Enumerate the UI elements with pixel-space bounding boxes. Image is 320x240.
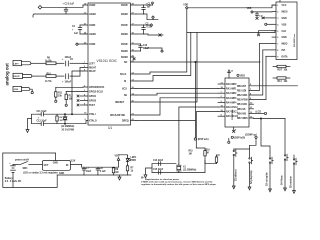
- svg-text:VCC: VCC: [282, 5, 287, 7]
- svg-text:C12 10uF: C12 10uF: [37, 120, 48, 122]
- gnd stub GPIO0: [77, 100, 79, 102]
- J1 pin 9 DATA: [272, 55, 288, 58]
- svg-text:XCS: XCS: [122, 89, 127, 91]
- svg-text:VS1011 SOIC: VS1011 SOIC: [97, 59, 118, 63]
- svg-text:R14: R14: [278, 80, 283, 83]
- svg-text:analog out: analog out: [5, 63, 10, 86]
- U1 right pin DVDD (28): [121, 3, 136, 7]
- svg-text:GND: GND: [14, 89, 19, 91]
- svg-text:RA4-WR4: RA4-WR4: [226, 101, 237, 104]
- node (LCD) circle: [256, 112, 267, 115]
- U1 right pin XDCS/BSYNC (23): [110, 113, 136, 117]
- U2 right pin RB7-WRS (13): [237, 116, 261, 120]
- U2 left pin RA4-WR4 (3): [218, 101, 237, 105]
- wire XRESET riser: [136, 33, 197, 103]
- svg-text:1M: 1M: [189, 154, 192, 156]
- svg-text:RST: RST: [278, 70, 283, 72]
- svg-text:RIGHT: RIGHT: [13, 76, 20, 78]
- svg-text:X1: X1: [183, 166, 187, 168]
- svg-text:RB0-INT: RB0-INT: [237, 86, 247, 88]
- svg-text:OUT: OUT: [44, 165, 49, 167]
- svg-text:Magic/tweaks on ultra-low powe: Magic/tweaks on ultra-low power: [145, 178, 179, 181]
- svg-text:GPIO2-SCLK: GPIO2-SCLK: [89, 92, 103, 94]
- svg-text:CLK: CLK: [282, 31, 287, 33]
- U1 right pin DGND (19): [121, 32, 136, 36]
- svg-text:5: 5: [277, 31, 279, 33]
- svg-text:C11 10uF: C11 10uF: [37, 111, 48, 113]
- svg-text:GPIO0: GPIO0: [89, 101, 97, 103]
- U1 left pin LEFT (7): [83, 62, 95, 66]
- svg-text:U1: U1: [108, 126, 112, 130]
- node VDD diamond mid stub: [144, 24, 153, 27]
- svg-text:R15: R15: [189, 151, 194, 153]
- capacitor C11 10uF: [37, 111, 48, 120]
- U1 right pin DGND (20): [121, 55, 135, 59]
- J1 pin 4 VSB: [272, 23, 287, 26]
- connector LEFT: [13, 61, 31, 66]
- wire gnd stub y35: [144, 34, 164, 36]
- svg-text:C5: C5: [70, 59, 74, 61]
- svg-text:SCLK: SCLK: [120, 74, 127, 76]
- U2 left pin RA6-OSC2 (15): [218, 105, 238, 109]
- svg-text:100uF: 100uF: [65, 82, 72, 84]
- svg-text:LED1: LED1: [131, 157, 138, 159]
- capacitor C3 top-left: [63, 3, 75, 14]
- wire J1 pin5 clk with gnd hook: [257, 31, 272, 36]
- capacitor C2 decoupling right: [136, 24, 153, 34]
- U1 right pin SI (13): [124, 79, 136, 83]
- svg-text:R9: R9: [47, 58, 51, 60]
- svg-text:R12: R12: [69, 95, 74, 97]
- svg-text:VDD: VDD: [115, 156, 120, 158]
- svg-text:AVDD: AVDD: [89, 43, 96, 46]
- svg-text:(LCD: (LCD: [256, 112, 262, 114]
- wire AGND return top-left: [33, 14, 83, 17]
- wire GPIO3 pull: [56, 86, 83, 88]
- svg-text:C8: C8: [100, 168, 104, 170]
- note text lines: [141, 178, 216, 186]
- svg-text:C15 22pF: C15 22pF: [153, 169, 164, 171]
- U1 right pin XRESET (26): [115, 100, 136, 104]
- button S5 branch: [290, 155, 297, 193]
- node (prog) circle top: [237, 74, 245, 77]
- U1 right pin SE (14): [124, 92, 136, 97]
- capacitor C4 mid-left: [72, 25, 83, 35]
- wire J1 pin4 open circle: [265, 23, 272, 25]
- resistor R14 pullup: [273, 77, 290, 83]
- svg-text:RB7-WRS: RB7-WRS: [237, 118, 248, 120]
- svg-text:+: +: [9, 163, 11, 165]
- IC U2 PIC body: [225, 78, 249, 127]
- U1 right pin SO (22) with long wire to right bus: [124, 60, 260, 64]
- U2 left pin RA7-OSC1 (16): [218, 110, 238, 114]
- svg-text:S4 ff/rew: S4 ff/rew: [280, 175, 283, 185]
- button S2 branch: [248, 157, 253, 190]
- U1 right pin DGND (27): [121, 12, 136, 16]
- svg-text:SO: SO: [124, 62, 128, 64]
- svg-text:IN: IN: [66, 165, 69, 167]
- connector RIGHT: [13, 73, 32, 78]
- svg-text:SW1: SW1: [23, 168, 29, 170]
- capacitor C5 100uF left channel: [62, 57, 74, 66]
- svg-text:ISO-MMC bus: ISO-MMC bus: [294, 33, 296, 47]
- button S3 branch: [266, 152, 273, 192]
- label analog out (rotated): [5, 63, 10, 86]
- ground arrow RCAP block: [26, 119, 32, 133]
- U2 right pin RB1-SDI (7): [237, 44, 260, 93]
- svg-text:RB3-PGM: RB3-PGM: [237, 100, 248, 102]
- svg-text:R6: R6: [60, 117, 63, 119]
- svg-text:S1 alt/next: S1 alt/next: [234, 169, 237, 181]
- svg-text:RA1-WR1: RA1-WR1: [226, 88, 237, 91]
- node (DSP b00) circle: [231, 136, 245, 139]
- U1 left pin AVDD (25): [83, 42, 96, 46]
- svg-text:VSB: VSB: [282, 24, 287, 26]
- svg-text:(12.288MHz): (12.288MHz): [61, 126, 75, 128]
- wire diamond stub y48: [145, 48, 164, 52]
- U1 right pin XCS (16): [122, 87, 136, 91]
- svg-text:3.6 - 6 volts DC: 3.6 - 6 volts DC: [5, 180, 22, 183]
- svg-text:1k: 1k: [131, 170, 134, 172]
- node VDD cluster at J1 pin2: [247, 8, 273, 13]
- svg-text:1M: 1M: [206, 153, 209, 155]
- svg-text:14: 14: [231, 70, 234, 73]
- resistor R8: [112, 167, 119, 175]
- U2 right pin RB6-WS (12): [237, 112, 264, 116]
- svg-text:LEFT: LEFT: [14, 63, 20, 65]
- svg-text:+: +: [38, 117, 40, 119]
- svg-text:(12.288MHz): (12.288MHz): [183, 169, 197, 171]
- node VDD circle stub top: [144, 2, 154, 5]
- svg-text:1k 5%: 1k 5%: [45, 61, 52, 63]
- capacitor C6 100uF right channel: [62, 74, 72, 84]
- svg-text:GPIO1: GPIO1: [89, 96, 97, 98]
- wire DREQ to DSP ack: [136, 61, 196, 138]
- svg-text:VDD: VDD: [183, 5, 188, 7]
- U2 left pin RA5-MCLR (4): [218, 114, 238, 119]
- capacitor C1 decoupling right top: [136, 4, 151, 14]
- wire J1 pin9 riser: [266, 55, 272, 57]
- svg-text:10k: 10k: [69, 98, 74, 100]
- svg-text:+: +: [62, 59, 64, 61]
- wire RCAP down to filter block: [72, 71, 83, 114]
- svg-text:0.1uF: 0.1uF: [100, 171, 107, 173]
- gnd stub pin20: [133, 58, 135, 60]
- wire regulator out rail: [70, 160, 118, 167]
- svg-text:1uF: 1uF: [147, 6, 152, 8]
- svg-text:DVDD: DVDD: [121, 5, 128, 7]
- wire OSC1 to crystal: [196, 112, 218, 148]
- svg-text:GND: GND: [282, 37, 287, 39]
- svg-text:R8: R8: [115, 169, 119, 171]
- node AVDD diamond top-left: [38, 6, 42, 10]
- battery BT1: [5, 163, 22, 188]
- U2 right pin RB2-SDO (8): [237, 50, 263, 97]
- svg-text:C14 22pF: C14 22pF: [153, 159, 164, 162]
- svg-text:5: 5: [235, 130, 237, 132]
- svg-text:1M: 1M: [115, 172, 118, 174]
- svg-text:PWR: PWR: [131, 160, 137, 162]
- capacitor C8 0.1uF: [96, 167, 106, 175]
- svg-text:DGND: DGND: [121, 57, 128, 59]
- svg-text:if NiMh cells don't add up to: if NiMh cells don't add up to brownouts,…: [141, 181, 213, 184]
- svg-text:DVDD: DVDD: [121, 44, 128, 46]
- svg-text:C10: C10: [143, 45, 148, 47]
- resistor R13 pullup: [273, 65, 290, 71]
- U1 left pin XTALO (9): [85, 119, 97, 123]
- connector J1 body: [276, 1, 297, 60]
- svg-text:8: 8: [277, 50, 279, 52]
- svg-text:3: 3: [277, 18, 279, 20]
- svg-text:SI: SI: [124, 81, 127, 83]
- svg-text:DGND: DGND: [121, 14, 128, 16]
- U1 right pin DREQ (41): [122, 118, 136, 123]
- svg-text:TEST: TEST: [89, 105, 95, 107]
- wire LED top to VDD: [119, 155, 128, 156]
- svg-text:VDD: VDD: [240, 75, 245, 77]
- U1 right pin DVDD (11): [121, 42, 136, 46]
- svg-text:S3 vol up/dn: S3 vol up/dn: [266, 172, 268, 186]
- U1 left pin XTALI (10): [84, 113, 96, 117]
- svg-text:4: 4: [277, 23, 279, 26]
- node (DSP ack): [194, 138, 209, 141]
- J1 pin 7 MISO: [272, 44, 288, 46]
- wire XTALI jog: [87, 113, 89, 115]
- svg-text:C7: C7: [86, 168, 90, 170]
- svg-text:10k: 10k: [58, 96, 63, 98]
- svg-text:XRESET: XRESET: [115, 102, 125, 104]
- node VDD top bus: [183, 5, 188, 10]
- resistor R16: [205, 149, 220, 163]
- resistor R10: [45, 73, 56, 83]
- svg-text:+ C3 0.1uF: + C3 0.1uF: [63, 3, 75, 5]
- wire gnd connector to open terminal: [30, 89, 33, 94]
- resistor R12 pulldown: [65, 92, 73, 107]
- IC U1 VS1011 body: [88, 3, 131, 130]
- svg-text:1M: 1M: [60, 120, 63, 122]
- ground crystal: [144, 168, 152, 178]
- RCAP filter rails: [32, 114, 39, 124]
- svg-text:10k: 10k: [284, 81, 289, 83]
- svg-text:C16: C16: [259, 15, 264, 17]
- switch SW1: [13, 159, 42, 169]
- svg-text:1k 5%: 1k 5%: [45, 81, 52, 83]
- node diamond stub second: [144, 14, 159, 20]
- wire J1 pin3 gnd: [262, 17, 272, 19]
- svg-text:XDCS-BSYNC: XDCS-BSYNC: [110, 115, 126, 117]
- svg-text:INT: INT: [282, 50, 286, 52]
- svg-text:GND: GND: [53, 163, 58, 165]
- button S4 branch: [280, 119, 288, 191]
- U1 right pin SCLK (12): [120, 72, 136, 76]
- svg-text:1uF: 1uF: [74, 33, 79, 35]
- svg-text:RB1-SDI: RB1-SDI: [237, 90, 247, 92]
- wire left audio: [31, 62, 83, 64]
- U2 right pin RB5-SS (11): [237, 107, 254, 111]
- J1 pin 2 MOSI: [272, 12, 288, 14]
- J1 pin 3 GND: [272, 18, 287, 20]
- U2 left pin RA1-WR1 (18): [218, 87, 237, 91]
- svg-text:S2 play/stop: S2 play/stop: [250, 170, 253, 184]
- U1 left pin GPIO2-SCLK (1): [83, 90, 103, 94]
- svg-text:R7: R7: [131, 167, 135, 169]
- svg-text:R11: R11: [58, 93, 63, 95]
- svg-text:DGND: DGND: [121, 34, 128, 36]
- U2 right pin RB0-INT (6): [237, 84, 298, 88]
- svg-text:AGND: AGND: [89, 13, 96, 16]
- capacitor C16 at J1: [256, 12, 264, 20]
- wire J1 pin7 riser: [260, 43, 273, 45]
- U1 left pin GPIO1 (4): [80, 93, 97, 98]
- U1 left pin AVDD (21): [83, 23, 96, 27]
- resistor R11 pulldown: [55, 87, 63, 102]
- U1 right pin DGND (15): [121, 49, 136, 53]
- J1 pin 8 INT: [272, 50, 286, 52]
- svg-text:regulator to dramatically redu: regulator to dramatically reduce the idl…: [141, 183, 216, 186]
- svg-text:(DSP ack): (DSP ack): [198, 139, 209, 141]
- svg-text:RB4-SCK: RB4-SCK: [237, 103, 248, 106]
- LED D1: [126, 156, 137, 165]
- svg-text:AVDD: AVDD: [89, 4, 96, 7]
- svg-text:XTALI: XTALI: [89, 113, 96, 116]
- U2 right pin RB4-SCK (10): [237, 103, 254, 107]
- wire VDD bus to connector pin1: [188, 5, 276, 8]
- crystal X2: [61, 114, 75, 131]
- U1 left pin GPIO0 (3): [80, 99, 97, 103]
- svg-text:1: 1: [277, 5, 279, 7]
- resistor R15 series: [189, 148, 207, 172]
- capacitor C14 22pF: [153, 159, 164, 165]
- wire xtal top rail: [43, 114, 86, 115]
- svg-text:RB6-WS: RB6-WS: [237, 113, 247, 115]
- U1 left pin AGND (24): [83, 31, 96, 36]
- power outer box: [3, 153, 57, 187]
- svg-text:power on/off: power on/off: [15, 159, 29, 161]
- U1 left pin AVDD (18): [83, 3, 96, 7]
- wire SE to PIC: [136, 93, 218, 95]
- svg-text:X2 24.576M: X2 24.576M: [62, 128, 74, 131]
- J1 pin 6 GND: [272, 37, 287, 39]
- note asterisk: [141, 177, 144, 179]
- svg-text:DGND: DGND: [121, 51, 128, 53]
- svg-text:R10: R10: [47, 73, 52, 75]
- J1 pin 1 VCC: [272, 5, 287, 7]
- U2 VSS pin bottom gnd: [233, 127, 238, 133]
- svg-text:RIGHT: RIGHT: [89, 68, 97, 70]
- U1 left pin AGND (13): [83, 12, 96, 16]
- wire SCLK loop to VDD rail: [136, 9, 187, 74]
- svg-text:RA3-WR3: RA3-WR3: [226, 97, 237, 100]
- crystal X1 body: [177, 165, 197, 171]
- U2 left pin RA0-WR0 (17): [218, 82, 237, 86]
- svg-text:LDO or similar 3.3 volt regula: LDO or similar 3.3 volt regulator: [23, 172, 58, 175]
- open terminal stub: [228, 138, 230, 143]
- node (COMP up): [245, 134, 257, 138]
- svg-text:10k: 10k: [284, 70, 289, 72]
- svg-text:DATA: DATA: [282, 55, 288, 58]
- svg-text:10uF: 10uF: [86, 171, 92, 173]
- svg-text:9: 9: [277, 56, 279, 58]
- svg-text:AGND: AGND: [89, 33, 96, 36]
- U1 left pin RIGHT (5): [83, 66, 97, 70]
- node AVDD diamond wire: [42, 5, 83, 7]
- svg-text:+: +: [72, 30, 74, 32]
- svg-text:GND: GND: [282, 18, 287, 20]
- svg-text:RCAP: RCAP: [89, 70, 96, 73]
- svg-text:0.1uF: 0.1uF: [143, 48, 150, 50]
- svg-text:DVDD: DVDD: [121, 25, 128, 27]
- svg-text:6: 6: [277, 37, 279, 39]
- U2 left pin RA3-WR3 (2): [218, 96, 237, 100]
- svg-text:0.1uF: 0.1uF: [147, 26, 154, 28]
- capacitor C12 10uF: [37, 120, 48, 125]
- svg-text:3.3V: 3.3V: [71, 160, 76, 162]
- gnd stub GPIO1: [77, 95, 79, 97]
- wire xtal bottom rail: [43, 121, 88, 125]
- wire GPIO2 to U1: [66, 91, 83, 93]
- resistor R9: [45, 58, 56, 65]
- svg-text:SE: SE: [124, 95, 128, 97]
- capacitor C10 decoupling right lower: [136, 44, 150, 51]
- U2 left pin RA2-WR2 (1): [218, 92, 237, 96]
- svg-text:RB5-SS: RB5-SS: [237, 109, 246, 111]
- svg-text:DREQ: DREQ: [122, 121, 129, 123]
- svg-text:2: 2: [277, 12, 279, 14]
- resistor R7 LED: [126, 165, 134, 176]
- U1 left pin GPIO3/SDATA (2): [83, 85, 105, 89]
- wire right audio: [32, 68, 83, 77]
- svg-text:VDD: VDD: [247, 8, 252, 10]
- gnd stub TEST: [77, 104, 79, 106]
- svg-text:C4: C4: [72, 25, 76, 28]
- regulator U3 box: [23, 161, 70, 175]
- svg-text:RB2-SDO: RB2-SDO: [237, 95, 248, 97]
- wire OSC2 to crystal: [179, 107, 218, 164]
- U1 right pin DVDD (17): [121, 23, 136, 27]
- svg-text:7: 7: [277, 44, 279, 46]
- svg-text:RA0-WR0: RA0-WR0: [226, 83, 237, 86]
- U2 right pin RB3-PGM (9): [237, 56, 266, 101]
- wire XDCS to PIC: [136, 98, 218, 115]
- J1 pin 5 CLK: [272, 31, 287, 33]
- wire COMP up to buttons: [250, 138, 257, 157]
- wire XCS to PIC: [136, 88, 218, 90]
- svg-text:(DSP b00): (DSP b00): [234, 138, 245, 140]
- capacitor C7 10uF: [82, 167, 92, 175]
- resistor R6 in xtal rails: [56, 114, 63, 124]
- button S1 branch: [232, 149, 249, 189]
- svg-text:GND: GND: [59, 173, 64, 175]
- wire SI to bus y32: [136, 31, 275, 82]
- wire gnd rail: [57, 173, 131, 175]
- crystal X1 wires: [152, 164, 205, 173]
- svg-text:LEFT: LEFT: [89, 64, 95, 66]
- connector GND audio: [13, 86, 30, 91]
- box LCD area: [260, 118, 285, 152]
- svg-text:Battery: Battery: [5, 177, 14, 180]
- ground arrow power rail: [118, 175, 121, 180]
- U1 left pin TEST (8): [80, 103, 95, 107]
- svg-text:S5 random: S5 random: [290, 176, 292, 188]
- wire AVDD stub pin25: [76, 43, 83, 46]
- node VDD arrow power: [115, 156, 120, 168]
- svg-text:AVDD: AVDD: [89, 24, 96, 27]
- svg-text:RA2-WR2: RA2-WR2: [226, 92, 237, 95]
- svg-text:R16: R16: [206, 149, 211, 151]
- svg-text:MOSI: MOSI: [282, 12, 288, 14]
- svg-text:XTALO: XTALO: [89, 120, 97, 123]
- U1 left pin RCAP (6): [83, 69, 96, 73]
